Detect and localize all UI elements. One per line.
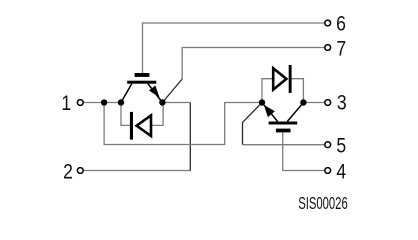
svg-text:6: 6: [336, 12, 346, 36]
junction node emitter T1: [159, 99, 165, 105]
IGBT T2 body bar: [269, 122, 298, 125]
svg-text:SIS00026: SIS00026: [298, 195, 348, 214]
wire terminal 5 horizontal: [243, 144, 325, 146]
svg-text:4: 4: [336, 160, 346, 184]
wire diode D1 loop right: [151, 103, 163, 126]
IGBT T1 emitter arrow: [149, 86, 160, 98]
diode D1 triangle: [137, 115, 151, 136]
IGBT T2 emitter arrow: [264, 105, 275, 117]
terminal 3: [325, 100, 331, 106]
wire vertical down to terminal 2 level: [189, 103, 191, 172]
diode D1 cathode bar: [130, 112, 133, 140]
wire terminal 6 (gate T1): [143, 23, 325, 74]
wire terminal 7 (aux emitter T1): [182, 48, 324, 80]
svg-text:3: 3: [337, 91, 347, 115]
IGBT T2 gate bar: [276, 129, 291, 133]
IGBT T1 body bar: [127, 81, 156, 84]
wire terminal 3 horizontal: [303, 102, 324, 104]
wire node A to emitter node E2 (midpoint link): [104, 103, 262, 145]
junction node collector T1: [118, 99, 124, 105]
IGBT T1 emitter diagonal: [148, 84, 163, 103]
svg-text:2: 2: [63, 160, 73, 184]
junction node A: [101, 99, 107, 105]
IGBT T2 emitter diagonal: [262, 103, 278, 122]
junction node emitter T2: [259, 99, 265, 105]
wire emitter rail right of node E1: [162, 102, 190, 104]
terminal 1: [77, 100, 83, 106]
terminal 5: [325, 142, 331, 148]
diode D2 cathode bar: [289, 65, 292, 93]
wire terminal 2 horizontal: [84, 170, 191, 172]
terminal 2: [77, 168, 83, 174]
IGBT T1 collector diagonal: [121, 84, 132, 103]
diode D2 triangle: [273, 68, 286, 89]
IGBT T2 collector diagonal: [287, 103, 303, 122]
wire emitter T2 down (aux emitter): [243, 103, 263, 145]
wire terminal 7 diagonal to emitter node E1: [162, 79, 182, 103]
svg-text:1: 1: [61, 91, 71, 115]
wire terminal 1 to collector node: [84, 102, 121, 104]
terminal 7: [325, 45, 331, 51]
wire diode D2 loop right: [291, 79, 303, 103]
terminal 4: [325, 168, 331, 174]
wire gate T2 to terminal 4: [283, 132, 325, 170]
wire diode D2 loop left: [262, 79, 273, 103]
junction node collector T2: [300, 99, 306, 105]
terminal 6: [325, 20, 331, 26]
svg-text:7: 7: [336, 37, 346, 61]
IGBT T1 gate bar: [135, 73, 150, 77]
wire diode D1 loop left: [121, 103, 131, 126]
svg-text:5: 5: [336, 134, 346, 158]
